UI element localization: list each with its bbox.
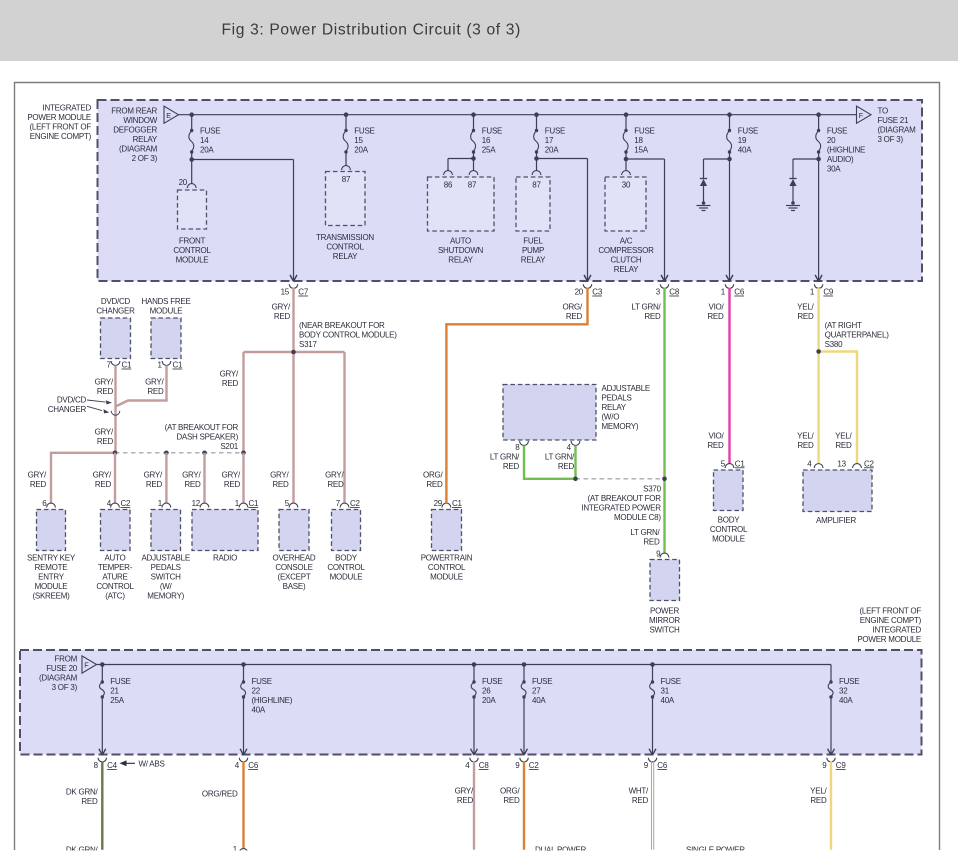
svg-text:LT GRN/: LT GRN/ bbox=[630, 528, 660, 537]
node F: feed triangle from fuse 20 bbox=[82, 656, 97, 673]
svg-text:MEMORY): MEMORY) bbox=[602, 422, 639, 431]
svg-text:FUSE: FUSE bbox=[200, 127, 220, 136]
svg-text:27: 27 bbox=[532, 687, 541, 696]
svg-text:RED: RED bbox=[503, 796, 520, 805]
svg-text:RED: RED bbox=[566, 312, 583, 321]
svg-text:DK GRN/: DK GRN/ bbox=[66, 788, 99, 797]
label: DK GRN/RED (C4 wire) bbox=[66, 788, 99, 807]
svg-text:GRY/: GRY/ bbox=[28, 471, 47, 480]
svg-text:(AT BREAKOUT FOR: (AT BREAKOUT FOR bbox=[165, 423, 239, 432]
label: (AT RIGHT QUARTERPANEL) S380 bbox=[825, 321, 890, 349]
wire: VIO/RED from C6 to body control module bbox=[728, 288, 730, 464]
svg-text:RED: RED bbox=[797, 312, 814, 321]
svg-text:POWER MODULE: POWER MODULE bbox=[857, 635, 921, 644]
svg-text:POWER: POWER bbox=[650, 607, 679, 616]
svg-text:QUARTERPANEL): QUARTERPANEL) bbox=[825, 330, 890, 339]
svg-text:BODY CONTROL MODULE): BODY CONTROL MODULE) bbox=[299, 330, 397, 339]
auto temperature control (pin 4 C2) bbox=[96, 499, 134, 601]
svg-text:C1: C1 bbox=[173, 361, 184, 370]
svg-text:CONTROL: CONTROL bbox=[96, 582, 134, 591]
svg-text:9: 9 bbox=[822, 761, 827, 770]
svg-text:FUSE: FUSE bbox=[482, 127, 502, 136]
label: GRY/RED (sentry key wire) bbox=[28, 471, 47, 490]
wire: YEL/RED from C9 (bottom) bbox=[830, 761, 832, 849]
svg-text:INTEGRATED: INTEGRATED bbox=[873, 626, 922, 635]
svg-text:WINDOW: WINDOW bbox=[123, 116, 157, 125]
adjustable pedals switch (pin 1) bbox=[141, 499, 189, 601]
svg-text:C4: C4 bbox=[107, 761, 118, 770]
svg-text:AUDIO): AUDIO) bbox=[827, 155, 854, 164]
svg-text:25A: 25A bbox=[482, 146, 496, 155]
label: LT GRN/RED (power mirror wire) bbox=[630, 528, 660, 547]
svg-text:BODY: BODY bbox=[335, 554, 358, 563]
label: VIO/RED (C6 wire bottom) bbox=[707, 431, 724, 450]
svg-text:E: E bbox=[166, 111, 171, 120]
svg-text:RED: RED bbox=[707, 441, 724, 450]
connector C2 pin 9 bbox=[515, 749, 539, 770]
transmission control relay (pin 87) bbox=[316, 166, 374, 261]
label: DK GRN/ (cut at page bottom) bbox=[66, 845, 99, 854]
label: GRY/RED (body control module wire) bbox=[325, 471, 344, 490]
wire: DK GRN/RED from C4 bbox=[101, 761, 103, 849]
svg-text:1: 1 bbox=[721, 288, 726, 297]
svg-text:C1: C1 bbox=[122, 361, 133, 370]
label: YEL/RED (amp pin 13 wire) bbox=[835, 431, 852, 450]
svg-text:ENGINE COMPT): ENGINE COMPT) bbox=[860, 616, 922, 625]
svg-text:ADJUSTABLE: ADJUSTABLE bbox=[141, 554, 189, 563]
label: ORG/RED (C2 wire) bbox=[500, 787, 520, 806]
svg-text:RED: RED bbox=[147, 387, 164, 396]
fuse F27: FUSE 27 40A bbox=[521, 662, 553, 755]
svg-text:FUEL: FUEL bbox=[523, 237, 543, 246]
svg-text:17: 17 bbox=[545, 136, 554, 145]
svg-text:20: 20 bbox=[179, 178, 188, 187]
wire: dvd/cd changer pin 7 down bbox=[114, 365, 116, 452]
svg-text:WHT/: WHT/ bbox=[629, 787, 649, 796]
fuse F21: FUSE 21 25A bbox=[99, 662, 131, 755]
adjustable pedals relay (pins 8, 4) bbox=[503, 385, 596, 452]
svg-text:REMOTE: REMOTE bbox=[35, 563, 68, 572]
hands free module (pin 1 C1) bbox=[151, 318, 183, 370]
fuse F16: FUSE 16 25A bbox=[471, 112, 502, 154]
svg-text:CONTROL: CONTROL bbox=[173, 246, 211, 255]
svg-text:(W/O: (W/O bbox=[602, 413, 620, 422]
body control module (pin 7 C2) bbox=[327, 499, 365, 582]
svg-text:RED: RED bbox=[97, 387, 114, 396]
connector C7 pin 15 bbox=[281, 275, 309, 296]
svg-text:YEL/: YEL/ bbox=[797, 303, 814, 312]
connector C4 pin 8 with W/ ABS arrow bbox=[94, 749, 165, 770]
label: (AT BREAKOUT FOR DASH SPEAKER) S201 bbox=[165, 423, 239, 451]
svg-text:YEL/: YEL/ bbox=[810, 787, 827, 796]
label: (LEFT FRONT OF ENGINE COMPT) INTEGRATED POWER MODULE bbox=[857, 607, 921, 645]
svg-text:40A: 40A bbox=[661, 696, 675, 705]
wire: hands free module pin 1 joining dvd wire bbox=[116, 365, 167, 406]
svg-text:SWITCH: SWITCH bbox=[151, 573, 182, 582]
svg-text:RED: RED bbox=[797, 441, 814, 450]
svg-text:C8: C8 bbox=[669, 288, 680, 297]
svg-text:C2: C2 bbox=[121, 499, 132, 508]
splice: DVD/CD CHANGER joint symbol bbox=[111, 411, 120, 415]
svg-text:MODULE C8): MODULE C8) bbox=[614, 513, 661, 522]
page cut mask bbox=[0, 851, 958, 864]
svg-text:GRY/: GRY/ bbox=[95, 428, 114, 437]
svg-text:C6: C6 bbox=[734, 288, 745, 297]
svg-text:20A: 20A bbox=[200, 146, 214, 155]
svg-text:W/ ABS: W/ ABS bbox=[139, 760, 165, 769]
label: GRY/RED (C7 wire) bbox=[272, 303, 291, 322]
svg-text:ENGINE COMPT): ENGINE COMPT) bbox=[30, 132, 92, 141]
fuse F26: FUSE 26 20A bbox=[471, 662, 503, 755]
connector C9 pin 1 bbox=[810, 275, 834, 296]
svg-text:RED: RED bbox=[426, 480, 443, 489]
label: FROM FUSE 20 (DIAGRAM 3 OF 3) bbox=[39, 655, 78, 693]
svg-text:9: 9 bbox=[644, 761, 649, 770]
svg-text:RED: RED bbox=[503, 462, 520, 471]
svg-text:20: 20 bbox=[827, 136, 836, 145]
label: GRY/RED (ATC wire) bbox=[93, 471, 112, 490]
svg-text:86: 86 bbox=[444, 181, 453, 190]
svg-text:GRY/: GRY/ bbox=[144, 471, 163, 480]
svg-text:RED: RED bbox=[457, 796, 474, 805]
fuse F17: FUSE 17 20A bbox=[534, 112, 565, 154]
fuse F31: FUSE 31 40A bbox=[649, 662, 681, 755]
svg-text:GRY/: GRY/ bbox=[272, 303, 291, 312]
svg-text:FRONT: FRONT bbox=[179, 237, 206, 246]
wire: fuse 16 split to auto shutdown relay pins 86/87 bbox=[448, 152, 476, 171]
svg-text:AUTO: AUTO bbox=[450, 237, 471, 246]
label: GRY/RED (overhead console wire) bbox=[270, 471, 289, 490]
amplifier (pins 4, 13 C2) bbox=[803, 459, 875, 525]
svg-text:OVERHEAD: OVERHEAD bbox=[273, 554, 316, 563]
hands free module label bbox=[141, 297, 190, 316]
svg-text:VIO/: VIO/ bbox=[708, 303, 724, 312]
svg-text:RED: RED bbox=[327, 480, 344, 489]
node E: feed triangle from rear window defogger relay bbox=[164, 106, 179, 123]
svg-text:FUSE: FUSE bbox=[482, 677, 502, 686]
splice S317 junction bbox=[291, 350, 296, 355]
svg-text:25A: 25A bbox=[110, 696, 124, 705]
svg-text:(W/: (W/ bbox=[160, 582, 173, 591]
svg-text:LT GRN/: LT GRN/ bbox=[631, 303, 661, 312]
wire: S317 branch left bbox=[244, 352, 294, 453]
svg-text:20A: 20A bbox=[482, 696, 496, 705]
A/C compressor clutch relay (pin 30) bbox=[598, 171, 654, 274]
fuse F32: FUSE 32 40A bbox=[828, 665, 860, 756]
svg-text:RED: RED bbox=[97, 437, 114, 446]
wire: ORG/RED from C2 bbox=[523, 761, 525, 849]
svg-text:YEL/: YEL/ bbox=[797, 431, 814, 440]
svg-text:31: 31 bbox=[661, 687, 670, 696]
svg-text:4: 4 bbox=[235, 761, 240, 770]
label: DVD/CD CHANGER with arrows bbox=[48, 395, 112, 414]
connector C9 pin 9 (fuse 32) bbox=[822, 749, 846, 770]
radio (pins 12, 1 C1) bbox=[192, 499, 259, 563]
svg-text:PEDALS: PEDALS bbox=[151, 563, 181, 572]
svg-text:LT GRN/: LT GRN/ bbox=[545, 452, 575, 461]
wire: S201 to radio pin 1 bbox=[242, 453, 244, 504]
svg-text:GRY/: GRY/ bbox=[182, 471, 201, 480]
svg-text:DEFOGGER: DEFOGGER bbox=[113, 125, 157, 134]
label: ORG/RED (C3 wire) bbox=[563, 303, 583, 322]
svg-text:GRY/: GRY/ bbox=[325, 471, 344, 480]
svg-text:RED: RED bbox=[274, 312, 291, 321]
svg-text:RED: RED bbox=[632, 796, 649, 805]
svg-text:MODULE: MODULE bbox=[150, 307, 183, 316]
wire: GRY/RED from C7 to splice S317 and overhead console bbox=[292, 288, 294, 503]
svg-text:AMPLIFIER: AMPLIFIER bbox=[816, 516, 856, 525]
svg-text:FUSE 20: FUSE 20 bbox=[46, 664, 78, 673]
svg-text:30A: 30A bbox=[827, 165, 841, 174]
wire: fuse 20 down to C9, branch to diode D2 bbox=[793, 152, 822, 281]
svg-text:ORG/: ORG/ bbox=[563, 303, 583, 312]
pin 1 (cut at page bottom) bbox=[233, 845, 248, 854]
svg-text:8: 8 bbox=[94, 761, 99, 770]
svg-text:COMPRESSOR: COMPRESSOR bbox=[598, 246, 654, 255]
svg-text:S370: S370 bbox=[643, 484, 661, 493]
svg-text:(DIAGRAM: (DIAGRAM bbox=[119, 144, 158, 153]
label: S370 (AT BREAKOUT FOR INTEGRATED POWER MODULE C8) bbox=[581, 484, 661, 522]
label: LT GRN/RED (relay pin 8) bbox=[490, 452, 520, 471]
wire: ORG/RED from C6 bbox=[242, 761, 244, 848]
svg-text:DVD/CD: DVD/CD bbox=[101, 297, 131, 306]
svg-text:S201: S201 bbox=[220, 442, 238, 451]
wire: S201 to radio pin 12 bbox=[203, 453, 205, 504]
svg-text:RED: RED bbox=[707, 312, 724, 321]
svg-text:SWITCH: SWITCH bbox=[649, 626, 680, 635]
svg-text:9: 9 bbox=[515, 761, 520, 770]
svg-text:14: 14 bbox=[200, 136, 209, 145]
svg-text:RELAY: RELAY bbox=[614, 265, 639, 274]
fuse F14: FUSE 14 20A bbox=[189, 112, 220, 154]
svg-text:C7: C7 bbox=[298, 288, 309, 297]
svg-text:40A: 40A bbox=[532, 696, 546, 705]
svg-text:POWERTRAIN: POWERTRAIN bbox=[421, 554, 473, 563]
svg-text:MODULE: MODULE bbox=[176, 256, 209, 265]
connector C3 pin 20 bbox=[575, 275, 603, 296]
svg-text:FUSE 21: FUSE 21 bbox=[878, 116, 910, 125]
svg-text:C9: C9 bbox=[823, 288, 834, 297]
svg-text:C6: C6 bbox=[657, 761, 668, 770]
label: ORG/RED (PCM wire) bbox=[423, 471, 443, 490]
svg-text:13: 13 bbox=[837, 459, 846, 468]
svg-text:SENTRY KEY: SENTRY KEY bbox=[27, 554, 76, 563]
fuse F19: FUSE 19 40A bbox=[727, 112, 758, 154]
svg-text:ENTRY: ENTRY bbox=[38, 573, 65, 582]
svg-text:FUSE: FUSE bbox=[545, 127, 565, 136]
connector C8 pin 3 bbox=[656, 275, 680, 296]
label: WHT/RED bbox=[629, 787, 649, 806]
svg-text:(DIAGRAM: (DIAGRAM bbox=[39, 674, 78, 683]
svg-text:VIO/: VIO/ bbox=[708, 431, 724, 440]
label: VIO/RED (C6 wire top) bbox=[707, 303, 724, 322]
svg-text:CONTROL: CONTROL bbox=[428, 563, 466, 572]
svg-text:4: 4 bbox=[807, 459, 812, 468]
svg-text:FROM: FROM bbox=[54, 655, 77, 664]
fuse F22: FUSE 22 (HIGHLINE) 40A bbox=[240, 662, 293, 755]
svg-text:ORG/: ORG/ bbox=[423, 471, 443, 480]
svg-text:FUSE: FUSE bbox=[661, 677, 681, 686]
svg-text:A/C: A/C bbox=[620, 237, 633, 246]
wire: S201 to ATC pin 4 bbox=[114, 453, 116, 504]
svg-text:21: 21 bbox=[110, 687, 119, 696]
svg-text:RED: RED bbox=[95, 480, 112, 489]
svg-text:BASE): BASE) bbox=[283, 582, 306, 591]
wire: fuse 17 to fuel pump relay pin 87, junction to C3 bbox=[534, 152, 591, 281]
svg-text:19: 19 bbox=[738, 136, 747, 145]
svg-text:20: 20 bbox=[575, 288, 584, 297]
svg-text:CONTROL: CONTROL bbox=[710, 525, 748, 534]
svg-text:CONTROL: CONTROL bbox=[327, 563, 365, 572]
svg-text:ATURE: ATURE bbox=[102, 573, 127, 582]
svg-text:(LEFT FRONT OF: (LEFT FRONT OF bbox=[29, 122, 91, 131]
svg-text:12: 12 bbox=[192, 499, 201, 508]
overhead console (pin 5) bbox=[273, 499, 316, 591]
label: GRY/RED (bottom C8 wire) bbox=[455, 787, 474, 806]
svg-text:15A: 15A bbox=[634, 146, 648, 155]
svg-text:TRANSMISSION: TRANSMISSION bbox=[316, 233, 374, 242]
label: GRY/RED (hands free pin wire) bbox=[145, 377, 164, 396]
svg-text:RELAY: RELAY bbox=[333, 252, 358, 261]
svg-text:FUSE: FUSE bbox=[110, 677, 130, 686]
svg-text:POWER MODULE: POWER MODULE bbox=[27, 113, 91, 122]
wire: fuse 18 to A/C compressor clutch relay pin 30, junction to C8 bbox=[624, 152, 668, 281]
svg-text:RED: RED bbox=[272, 480, 289, 489]
wire: relay pin 4 to S370 bbox=[574, 445, 576, 478]
svg-text:TEMPER-: TEMPER- bbox=[98, 563, 133, 572]
label: (NEAR BREAKOUT FOR BODY CONTROL MODULE) S317 bbox=[299, 321, 397, 349]
svg-text:GRY/: GRY/ bbox=[93, 471, 112, 480]
label: GRY/RED (dvd pin wire) bbox=[95, 377, 114, 396]
svg-text:MODULE: MODULE bbox=[35, 582, 68, 591]
label: FROM REAR WINDOW DEFOGGER RELAY (DIAGRAM 2 OF 3) bbox=[111, 106, 158, 162]
svg-text:(HIGHLINE): (HIGHLINE) bbox=[252, 696, 293, 705]
svg-text:RED: RED bbox=[810, 796, 827, 805]
svg-text:GRY/: GRY/ bbox=[145, 377, 164, 386]
label: DUAL POWER (cut at page bottom) bbox=[535, 845, 586, 854]
svg-text:DVD/CD: DVD/CD bbox=[57, 395, 87, 404]
svg-text:MODULE: MODULE bbox=[330, 573, 363, 582]
label: SINGLE POWER (cut at page bottom) bbox=[686, 845, 745, 854]
svg-text:RED: RED bbox=[81, 797, 98, 806]
wire: WHT/RED from C6 (fuse 31) bbox=[652, 761, 654, 849]
svg-text:FUSE: FUSE bbox=[738, 127, 758, 136]
integrated power module box (top) bbox=[98, 100, 923, 281]
svg-text:C6: C6 bbox=[248, 761, 259, 770]
connector C6 pin 4 (bottom box) bbox=[235, 749, 259, 770]
fuse F15: FUSE 15 20A bbox=[343, 112, 374, 154]
svg-text:GRY/: GRY/ bbox=[455, 787, 474, 796]
label: ORG/RED (C6 wire) bbox=[202, 790, 238, 799]
svg-text:C2: C2 bbox=[864, 459, 875, 468]
svg-text:PEDALS: PEDALS bbox=[602, 394, 632, 403]
svg-text:S317: S317 bbox=[299, 340, 317, 349]
svg-text:Fig 3: Power Distribution Circ: Fig 3: Power Distribution Circuit (3 of … bbox=[222, 22, 521, 39]
svg-text:FUSE: FUSE bbox=[532, 677, 552, 686]
auto shutdown relay (pins 86, 87) bbox=[428, 171, 495, 265]
svg-text:20A: 20A bbox=[354, 146, 368, 155]
label: ADJUSTABLE PEDALS RELAY (W/O MEMORY) bbox=[602, 384, 650, 431]
svg-text:87: 87 bbox=[342, 175, 351, 184]
svg-text:8: 8 bbox=[515, 443, 520, 452]
svg-text:2 OF 3): 2 OF 3) bbox=[132, 154, 158, 163]
svg-text:(LEFT FRONT OF: (LEFT FRONT OF bbox=[859, 607, 921, 616]
wire: bottom feed bus bbox=[97, 664, 832, 666]
svg-text:FROM REAR: FROM REAR bbox=[111, 106, 157, 115]
svg-text:87: 87 bbox=[468, 181, 477, 190]
svg-text:18: 18 bbox=[634, 136, 643, 145]
svg-text:26: 26 bbox=[482, 687, 491, 696]
svg-text:(DIAGRAM: (DIAGRAM bbox=[878, 125, 917, 134]
connector C6 pin 9 (fuse 31) bbox=[644, 749, 668, 770]
splice S201 dashed bus bbox=[115, 452, 244, 454]
label: YEL/RED (bottom C9 wire) bbox=[810, 787, 827, 806]
svg-text:RED: RED bbox=[835, 441, 852, 450]
svg-text:4: 4 bbox=[465, 761, 470, 770]
label: YEL/RED (amp pin 4 wire) bbox=[797, 431, 814, 450]
svg-text:LT GRN/: LT GRN/ bbox=[490, 452, 520, 461]
svg-text:PUMP: PUMP bbox=[522, 246, 544, 255]
label: YEL/RED (C9 wire top) bbox=[797, 303, 814, 322]
svg-text:C2: C2 bbox=[350, 499, 361, 508]
wire: fuse 15 to transmission control relay pin 87 bbox=[345, 152, 347, 166]
svg-text:AUTO: AUTO bbox=[104, 554, 125, 563]
svg-text:MEMORY): MEMORY) bbox=[147, 592, 184, 601]
wire: S201 to adjustable pedals switch pin 1 bbox=[165, 453, 167, 504]
svg-text:15: 15 bbox=[354, 136, 363, 145]
svg-text:FUSE: FUSE bbox=[252, 677, 272, 686]
svg-text:CONTROL: CONTROL bbox=[326, 243, 364, 252]
label: GRY/RED (adj pedals switch wire) bbox=[144, 471, 163, 490]
svg-text:(SKREEM): (SKREEM) bbox=[32, 592, 70, 601]
powertrain control module (pin 29 C1) bbox=[421, 499, 473, 582]
svg-text:(AT RIGHT: (AT RIGHT bbox=[825, 321, 862, 330]
svg-text:3 OF 3): 3 OF 3) bbox=[52, 683, 78, 692]
fuel pump relay (pin 87) bbox=[516, 171, 550, 265]
svg-text:ORG/RED: ORG/RED bbox=[202, 790, 238, 799]
dvd/cd changer label bbox=[96, 297, 135, 316]
wire: fuse 19 down to C6, branch to diode D1 bbox=[704, 152, 733, 281]
svg-text:RELAY: RELAY bbox=[521, 256, 546, 265]
svg-text:22: 22 bbox=[252, 687, 261, 696]
svg-text:15: 15 bbox=[281, 288, 290, 297]
svg-text:RED: RED bbox=[184, 480, 201, 489]
label: LT GRN/RED (C8 wire) bbox=[631, 303, 661, 322]
svg-text:30: 30 bbox=[622, 181, 631, 190]
junction dots on S201 bbox=[113, 451, 246, 456]
sentry key remote entry module (pin 6) bbox=[27, 499, 76, 601]
diode D1 with ground bbox=[697, 159, 711, 211]
splice S370 dashed link bbox=[573, 477, 667, 482]
svg-text:INTEGRATED POWER: INTEGRATED POWER bbox=[581, 503, 661, 512]
svg-text:RELAY: RELAY bbox=[602, 403, 627, 412]
svg-text:3: 3 bbox=[656, 288, 661, 297]
svg-text:INTEGRATED: INTEGRATED bbox=[43, 103, 92, 112]
connector C6 pin 1 bbox=[721, 275, 745, 296]
svg-text:FUSE: FUSE bbox=[634, 127, 654, 136]
label: INTEGRATED POWER MODULE (LEFT FRONT OF ENGINE COMPT) bbox=[27, 103, 91, 141]
svg-text:C3: C3 bbox=[592, 288, 603, 297]
svg-text:FUSE: FUSE bbox=[839, 677, 859, 686]
svg-text:29: 29 bbox=[434, 499, 443, 508]
wire: GRY/RED from C8 (bottom) bbox=[473, 761, 475, 849]
svg-text:CHANGER: CHANGER bbox=[48, 405, 87, 414]
svg-text:C8: C8 bbox=[479, 761, 490, 770]
node F: to fuse 21 triangle bbox=[857, 106, 872, 123]
svg-text:C1: C1 bbox=[452, 499, 463, 508]
svg-text:20A: 20A bbox=[545, 146, 559, 155]
svg-text:1: 1 bbox=[810, 288, 815, 297]
